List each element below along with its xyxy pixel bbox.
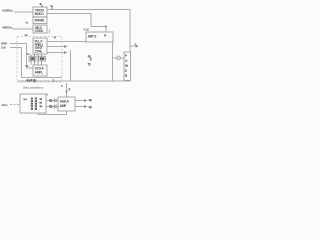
junction dot antenna — [105, 26, 107, 28]
box U3 — [33, 25, 47, 33]
arrowhead transformer — [24, 98, 29, 100]
box U5 vco — [33, 65, 47, 76]
small filter box 1 — [29, 56, 36, 61]
wire clk-in — [10, 48, 62, 78]
wire top bus — [47, 10, 130, 53]
transformer box — [20, 94, 46, 113]
wire speaker up — [66, 83, 68, 97]
svg-text:CLK: CLK — [1, 46, 6, 50]
bus line 4 — [41, 54, 43, 65]
svg-text:VIDEO in: VIDEO in — [2, 26, 13, 30]
wire mid vertical — [70, 50, 72, 81]
svg-text:4 1.0: 4 1.0 — [84, 28, 90, 32]
transformer aux marks — [40, 98, 43, 100]
svg-text:4g: 4g — [88, 54, 91, 58]
tick 41a — [41, 5, 44, 7]
rectifier marks between boxes — [49, 99, 52, 102]
wire ac dashed input — [10, 104, 20, 106]
power supply tall box — [124, 52, 131, 81]
antenna switch box — [86, 32, 113, 42]
arrowhead af out2 — [84, 105, 88, 108]
wire input1 — [14, 11, 33, 13]
svg-text:CTRL: CTRL — [35, 50, 43, 54]
svg-text:AMP: AMP — [60, 104, 68, 108]
wire arrow out2 — [47, 52, 64, 54]
svg-text:CONV: CONV — [35, 29, 44, 33]
arrowhead af out1 — [84, 99, 88, 102]
box U1 top — [33, 7, 47, 17]
box U2 — [33, 17, 47, 24]
small filter box 2 — [39, 56, 46, 61]
tick right of box C — [48, 30, 51, 34]
transformer winding bar 2 — [35, 98, 37, 100]
wire af out2 — [75, 106, 85, 108]
svg-text:sp: sp — [89, 105, 92, 109]
wire input2 — [12, 28, 33, 30]
bus line 3 — [37, 54, 39, 65]
svg-text:MOD 1: MOD 1 — [35, 12, 44, 16]
svg-text:sp: sp — [89, 98, 92, 102]
wire vco out — [47, 41, 86, 43]
label arrow down 4g — [90, 59, 92, 62]
audio amp box — [58, 97, 75, 111]
dashed tuner unit enclosure — [17, 37, 62, 83]
svg-text:AMPL: AMPL — [35, 70, 43, 74]
arrowhead out2 — [64, 51, 68, 54]
svg-text:AC in: AC in — [2, 103, 8, 107]
svg-text:ANT S: ANT S — [88, 35, 98, 39]
wire label leader 1 — [131, 45, 136, 47]
wire arrow out1 — [47, 46, 64, 48]
wire branch to antenna switch — [47, 14, 106, 33]
jack circle — [117, 56, 121, 60]
arrowhead speaker up — [65, 91, 68, 94]
svg-text:W: W — [125, 64, 128, 68]
transformer winding bar 1 — [31, 98, 33, 100]
arrowhead out1 — [64, 45, 68, 48]
filter box 1 mark — [30, 57, 35, 60]
svg-text:AUD.A: AUD.A — [60, 99, 70, 103]
wire jack link — [113, 57, 125, 59]
svg-text:AUDIO in: AUDIO in — [2, 9, 13, 13]
capacitor ticks af line2 — [53, 105, 56, 109]
wire af left1 — [46, 100, 58, 102]
svg-text:E: E — [125, 69, 127, 73]
svg-text:(4) tun. assembly un: (4) tun. assembly un — [23, 85, 44, 89]
svg-text:FM MD: FM MD — [35, 19, 45, 23]
wire bottom bus — [18, 80, 130, 82]
filter box 2 mark — [40, 57, 45, 60]
wire ground return — [38, 111, 67, 115]
bus line 1 — [30, 54, 32, 65]
bus line 2 — [34, 54, 36, 65]
wire data-in — [10, 44, 33, 69]
wire af out1 — [75, 100, 85, 102]
wire af left2 — [46, 106, 58, 108]
svg-text:4e(4f 4j): 4e(4f 4j) — [26, 79, 36, 83]
tick 4a — [51, 7, 54, 9]
terminal dot right — [135, 45, 138, 48]
capacitor ticks af line1 — [53, 99, 56, 103]
box U4 pll — [33, 38, 47, 54]
wire ant-sw down — [112, 42, 114, 81]
